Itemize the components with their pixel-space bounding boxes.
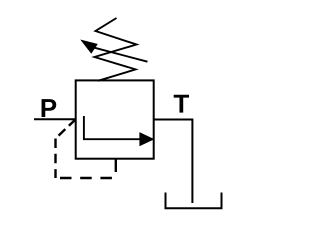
spring adjustment arrowhead xyxy=(82,41,96,53)
tank xyxy=(166,193,222,209)
spring adjustment arrow shaft xyxy=(93,47,148,62)
pilot stub xyxy=(115,159,117,172)
P supply line xyxy=(34,118,76,120)
port label T xyxy=(174,95,189,113)
port label P xyxy=(42,99,57,117)
valve body xyxy=(76,80,154,158)
T return line xyxy=(154,120,193,204)
internal flow arrowhead xyxy=(140,133,153,146)
pilot line dashed vertical xyxy=(54,139,56,179)
spring xyxy=(95,18,137,81)
internal flow arrow path xyxy=(84,116,141,139)
pilot line dashed diagonal xyxy=(56,119,76,138)
pilot line dashed horizontal xyxy=(56,177,115,179)
